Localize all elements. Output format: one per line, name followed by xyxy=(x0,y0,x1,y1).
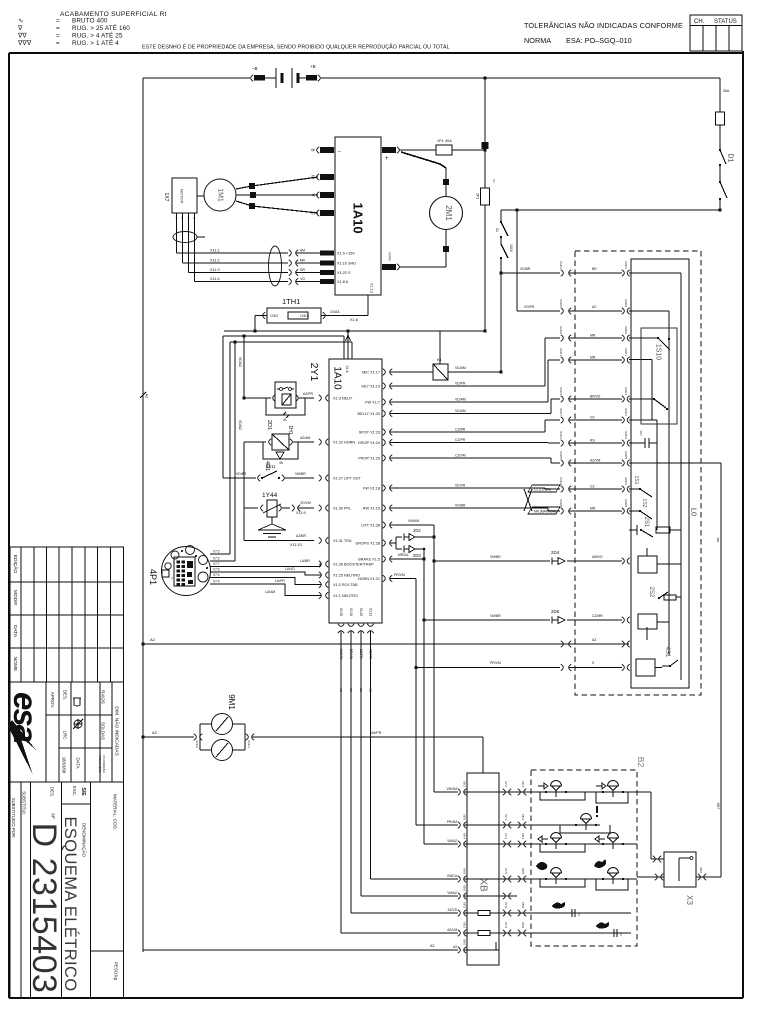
svg-text:2M1: 2M1 xyxy=(444,205,453,221)
svg-text:X20:1: X20:1 xyxy=(624,348,628,356)
svg-text:BRAKE X1:5: BRAKE X1:5 xyxy=(358,557,380,561)
svg-text:MR/AZ: MR/AZ xyxy=(398,553,409,557)
svg-text:CINZA: CINZA xyxy=(330,310,340,314)
svg-text:XB:8: XB:8 xyxy=(521,902,525,909)
svg-text:LA/PR: LA/PR xyxy=(275,579,285,583)
svg-text:CZ/PR: CZ/PR xyxy=(455,438,466,442)
svg-text:RAIOS: RAIOS xyxy=(100,690,105,704)
svg-text:MR: MR xyxy=(300,259,306,263)
svg-text:esa: esa xyxy=(7,692,44,743)
svg-text:VD/PR: VD/PR xyxy=(524,305,535,309)
svg-text:RS: RS xyxy=(590,439,595,443)
svg-text:VD/BR: VD/BR xyxy=(455,504,466,508)
svg-text:SOLDAS: SOLDAS xyxy=(100,722,105,740)
svg-text:X7:2: X7:2 xyxy=(213,557,220,561)
svg-text:X7:4: X7:4 xyxy=(504,833,508,839)
svg-text:1X7: 1X7 xyxy=(163,193,169,202)
svg-text:X1:26 BOOSTER/TRAP: X1:26 BOOSTER/TRAP xyxy=(333,562,374,566)
svg-text:X7:6: X7:6 xyxy=(213,568,220,572)
svg-text:∇∇∇: ∇∇∇ xyxy=(17,39,32,47)
svg-text:BR: BR xyxy=(592,267,597,271)
svg-text:MR: MR xyxy=(590,356,596,360)
svg-text:1S1X: 1S1X xyxy=(509,244,513,253)
svg-text:ESQUEMA ELÉTRICO: ESQUEMA ELÉTRICO xyxy=(61,816,80,991)
svg-text:X10:1: X10:1 xyxy=(559,261,563,269)
svg-text:VM/PR: VM/PR xyxy=(370,731,382,735)
svg-text:SUBSTITUI:: SUBSTITUI: xyxy=(21,791,26,815)
svg-text:XB:5: XB:5 xyxy=(521,868,525,875)
svg-text:X7:2: X7:2 xyxy=(504,781,508,787)
svg-text:LA/VD: LA/VD xyxy=(285,567,295,571)
svg-text:X?: X? xyxy=(492,179,496,183)
svg-text:VD/VM: VD/VM xyxy=(300,501,311,505)
svg-text:XB:2: XB:2 xyxy=(462,781,466,788)
svg-text:X11:2: X11:2 xyxy=(210,259,220,263)
svg-text:A2: A2 xyxy=(453,945,457,949)
svg-text:AM/VD: AM/VD xyxy=(592,555,603,559)
svg-text:MODIF.: MODIF. xyxy=(12,590,18,606)
svg-text:X1:30 PPL: X1:30 PPL xyxy=(333,506,351,510)
svg-text:1TH1: 1TH1 xyxy=(282,297,300,306)
svg-text:VD: VD xyxy=(300,277,305,281)
svg-text:D1: D1 xyxy=(726,154,733,163)
svg-text:B: B xyxy=(310,148,315,151)
svg-text:X10:6: X10:6 xyxy=(559,326,563,334)
svg-text:VD/BR: VD/BR xyxy=(520,267,531,271)
svg-text:ESTE DESNHO É DE PROPRIEDADE D: ESTE DESNHO É DE PROPRIEDADE DA EMPRESA,… xyxy=(142,44,450,51)
svg-text:VM/CA: VM/CA xyxy=(447,874,458,878)
svg-text:PR/VM: PR/VM xyxy=(394,573,405,577)
svg-text:ESA: PO–SGQ–010: ESA: PO–SGQ–010 xyxy=(566,36,632,45)
svg-text:1S2: 1S2 xyxy=(641,499,647,508)
svg-text:X1:2 ROJ.TAB: X1:2 ROJ.TAB xyxy=(333,583,358,587)
svg-text:XB:3: XB:3 xyxy=(521,814,525,821)
svg-text:LIFT X1:38: LIFT X1:38 xyxy=(361,523,380,527)
svg-text:1S?: 1S? xyxy=(639,430,643,436)
svg-text:1Y44: 1Y44 xyxy=(262,492,278,499)
svg-text:XB:6: XB:6 xyxy=(462,885,466,892)
svg-text:1S10: 1S10 xyxy=(654,344,661,360)
svg-text:A2: A2 xyxy=(150,637,156,642)
svg-text:2F1: 2F1 xyxy=(476,193,480,199)
svg-text:VD/PR: VD/PR xyxy=(455,382,466,386)
svg-text:MATERIAL: COD.: MATERIAL: COD. xyxy=(112,794,117,830)
svg-text:X1:25 NEUTRO: X1:25 NEUTRO xyxy=(333,573,360,577)
svg-text:VD/VR: VD/VR xyxy=(455,484,466,488)
svg-text:TOLERÂNCIAS NÃO INDICADAS C: TOLERÂNCIAS NÃO INDICADAS CONFORME xyxy=(524,21,683,30)
svg-text:VD/AZ: VD/AZ xyxy=(238,357,242,367)
svg-text:X7:3: X7:3 xyxy=(504,814,508,820)
svg-text:X10:6: X10:6 xyxy=(559,299,563,307)
svg-text:1S1: 1S1 xyxy=(633,476,639,485)
svg-text:D 2315403: D 2315403 xyxy=(25,823,63,994)
svg-text:=: = xyxy=(56,33,60,40)
svg-text:XB:9: XB:9 xyxy=(462,868,466,875)
svg-text:1M1: 1M1 xyxy=(216,188,223,202)
svg-text:PESO:kg: PESO:kg xyxy=(113,962,118,981)
svg-text:B2: B2 xyxy=(636,757,646,768)
svg-text:X7:8: X7:8 xyxy=(504,902,508,908)
svg-text:X10:7: X10:7 xyxy=(559,408,563,416)
svg-text:X1:10 SHD: X1:10 SHD xyxy=(337,262,356,266)
svg-text:XB:3: XB:3 xyxy=(462,902,466,909)
svg-text:CH.: CH. xyxy=(694,19,705,25)
svg-text:A2: A2 xyxy=(430,944,434,948)
svg-text:Nº: Nº xyxy=(49,813,55,818)
svg-text:X12:2: X12:2 xyxy=(195,740,199,748)
svg-text:X1:22 HORN: X1:22 HORN xyxy=(333,440,355,444)
svg-text:XB:2: XB:2 xyxy=(521,781,525,788)
svg-text:CZ/MR: CZ/MR xyxy=(592,614,603,618)
svg-text:VM/AM: VM/AM xyxy=(408,519,419,523)
svg-text://: // xyxy=(620,933,622,937)
svg-text:AZ: AZ xyxy=(592,305,596,309)
svg-text:1F4: 1F4 xyxy=(437,139,444,143)
svg-text:S/E: S/E xyxy=(80,787,86,796)
svg-text:2D2: 2D2 xyxy=(413,528,421,533)
svg-text:RW X1:15: RW X1:15 xyxy=(363,506,380,510)
svg-text:VS: VS xyxy=(590,416,595,420)
svg-text:BR: BR xyxy=(300,268,305,272)
svg-text:MR: MR xyxy=(716,538,720,543)
svg-text:X1:11: X1:11 xyxy=(368,608,372,616)
svg-text:2D4: 2D4 xyxy=(551,550,560,555)
svg-text:X1:20: X1:20 xyxy=(359,608,363,617)
svg-text:∇: ∇ xyxy=(17,24,23,32)
svg-text:DATA: DATA xyxy=(75,757,80,768)
svg-text:X20:6: X20:6 xyxy=(624,326,628,334)
svg-text:X20:1: X20:1 xyxy=(624,261,628,269)
svg-text:VM/AZ: VM/AZ xyxy=(447,891,457,895)
svg-text:1H1: 1H1 xyxy=(287,425,293,434)
svg-text:X11:9: X11:9 xyxy=(296,511,306,515)
svg-text:2Y1: 2Y1 xyxy=(308,363,320,382)
svg-text:XB:7: XB:7 xyxy=(716,803,720,810)
svg-text:DROPS X1:28: DROPS X1:28 xyxy=(356,541,380,545)
svg-text:VD/AM: VD/AM xyxy=(455,366,466,370)
svg-text:LA/AM: LA/AM xyxy=(265,590,275,594)
svg-text:45: 45 xyxy=(279,461,283,465)
svg-text:2D3: 2D3 xyxy=(413,553,421,558)
svg-text:4S1: 4S1 xyxy=(664,647,670,658)
svg-text:2S1: 2S1 xyxy=(643,517,649,528)
svg-text:+B: +B xyxy=(310,64,316,69)
svg-text:CZ/BR: CZ/BR xyxy=(455,428,466,432)
svg-text:P/FUNDIÇÃO: P/FUNDIÇÃO xyxy=(102,755,107,773)
svg-text:X10:3: X10:3 xyxy=(559,431,563,439)
svg-text:=: = xyxy=(56,25,60,32)
svg-text://: // xyxy=(578,913,580,917)
svg-text:MOTOR: MOTOR xyxy=(180,189,185,204)
svg-text:EDIÇÃO: EDIÇÃO xyxy=(12,555,19,574)
svg-text:CZ: CZ xyxy=(590,485,595,489)
svg-text:X1:1 NEUTRO: X1:1 NEUTRO xyxy=(333,594,358,598)
svg-text:VD/AZ: VD/AZ xyxy=(238,420,242,430)
svg-text:VMN: VMN xyxy=(388,252,393,261)
svg-text:CZ (CINZA): CZ (CINZA) xyxy=(534,488,551,492)
svg-text:XB:4: XB:4 xyxy=(462,833,466,840)
svg-text:X12:1: X12:1 xyxy=(247,740,251,748)
svg-text:AZ: AZ xyxy=(592,638,596,642)
svg-text:STATUS: STATUS xyxy=(714,19,737,25)
svg-text:+: + xyxy=(385,156,389,162)
svg-text:X1:6: X1:6 xyxy=(350,318,358,322)
svg-text:DES.: DES. xyxy=(62,690,67,700)
svg-text:MIC X1:17: MIC X1:17 xyxy=(362,370,380,374)
svg-text:HORN X1:21: HORN X1:21 xyxy=(358,577,380,581)
svg-text:4P1: 4P1 xyxy=(148,569,158,585)
svg-text:RUG. > 1 ATÉ 4: RUG. > 1 ATÉ 4 xyxy=(72,38,119,47)
svg-text:VM/BR: VM/BR xyxy=(490,555,501,559)
svg-text:X11:1: X11:1 xyxy=(210,249,220,253)
svg-text:LA/BR: LA/BR xyxy=(300,559,310,563)
svg-text:41: 41 xyxy=(283,418,287,422)
svg-text:MR: MR xyxy=(590,507,596,511)
svg-text:X1:34: X1:34 xyxy=(349,608,353,617)
svg-text:X1:31 TRA: X1:31 TRA xyxy=(333,539,352,543)
svg-text:∿: ∿ xyxy=(18,18,24,25)
svg-text:1X8:2: 1X8:2 xyxy=(270,314,279,318)
svg-text:BR/VD: BR/VD xyxy=(590,395,601,399)
svg-text:X1:22 S: X1:22 S xyxy=(337,271,351,275)
svg-text:BELLY X1:33: BELLY X1:33 xyxy=(358,412,380,416)
svg-text:1A10: 1A10 xyxy=(331,366,342,390)
svg-text:X20:4: X20:4 xyxy=(624,387,628,395)
svg-text:–: – xyxy=(338,149,341,155)
svg-text:X20:3: X20:3 xyxy=(624,431,628,439)
svg-text:RUG. > 25 ATÉ 160: RUG. > 25 ATÉ 160 xyxy=(72,23,130,32)
svg-text:XB:4: XB:4 xyxy=(521,833,525,840)
svg-text:A2: A2 xyxy=(145,394,149,398)
svg-text:APROV.: APROV. xyxy=(50,692,55,708)
svg-text:K1: K1 xyxy=(437,358,442,362)
svg-text:=: = xyxy=(56,18,60,25)
svg-text:A2: A2 xyxy=(152,730,158,735)
svg-text:DES.: DES. xyxy=(49,787,54,797)
svg-text:VM/BR: VM/BR xyxy=(490,614,501,618)
svg-text:X10:1: X10:1 xyxy=(559,348,563,356)
svg-text:DROP X1:24: DROP X1:24 xyxy=(358,441,380,445)
svg-text:X11:4: X11:4 xyxy=(210,277,220,281)
svg-text:X1:27 LIFT OUT: X1:27 LIFT OUT xyxy=(333,476,361,480)
svg-text:X3: X3 xyxy=(685,895,694,905)
svg-text:PR/VM: PR/VM xyxy=(490,661,501,665)
svg-text:VD/AM: VD/AM xyxy=(455,398,466,402)
svg-text:DIM. NÃO INDICADAS: DIM. NÃO INDICADAS xyxy=(113,706,120,755)
svg-text:SPOT X1:23: SPOT X1:23 xyxy=(359,430,380,434)
svg-text:XB:6: XB:6 xyxy=(699,867,703,874)
svg-text:AZ/VD: AZ/VD xyxy=(448,908,458,912)
svg-text:AZ/VM: AZ/VM xyxy=(590,459,601,463)
svg-text:VM/AM: VM/AM xyxy=(447,787,458,791)
svg-text:2S2: 2S2 xyxy=(648,587,654,598)
svg-text:1X8:1: 1X8:1 xyxy=(300,314,309,318)
svg-text:X7:2: X7:2 xyxy=(213,550,220,554)
svg-text:X7:4: X7:4 xyxy=(213,580,220,584)
svg-text:X20:6: X20:6 xyxy=(624,299,628,307)
svg-text:ESC.: ESC. xyxy=(72,786,77,796)
svg-text:XB:9: XB:9 xyxy=(521,922,525,929)
svg-text:DENOMINAÇÃO: DENOMINAÇÃO xyxy=(81,823,87,858)
svg-text:VM/AZ: VM/AZ xyxy=(447,839,457,843)
svg-text:X1:3 NEUT: X1:3 NEUT xyxy=(333,396,353,400)
svg-text:X10:5: X10:5 xyxy=(559,451,563,459)
svg-text:–B: –B xyxy=(252,66,258,71)
svg-text:DATA: DATA xyxy=(12,625,18,638)
svg-text:18/03/08: 18/03/08 xyxy=(61,757,66,774)
svg-text:PR/AM: PR/AM xyxy=(447,820,457,824)
svg-text:MR: MR xyxy=(590,334,596,338)
svg-text:2D6: 2D6 xyxy=(551,609,560,614)
svg-text:9M1: 9M1 xyxy=(227,694,236,710)
svg-text:AZ/AM: AZ/AM xyxy=(300,436,311,440)
svg-text:30A: 30A xyxy=(723,89,730,93)
svg-text:40A: 40A xyxy=(445,139,452,143)
svg-text:X10:8: X10:8 xyxy=(559,499,563,507)
svg-text:X20:7: X20:7 xyxy=(624,408,628,416)
svg-text:FW X1:18: FW X1:18 xyxy=(363,486,380,490)
svg-text:X20:5: X20:5 xyxy=(624,451,628,459)
svg-text:L0: L0 xyxy=(689,508,698,516)
svg-text:VM/BR: VM/BR xyxy=(295,472,306,476)
svg-text:X20:4: X20:4 xyxy=(624,477,628,485)
svg-text:VD/AM: VD/AM xyxy=(455,409,466,413)
svg-text:MR (MARROM): MR (MARROM) xyxy=(534,510,557,514)
svg-text:X7:9: X7:9 xyxy=(504,922,508,928)
svg-text:NOME: NOME xyxy=(12,657,18,671)
svg-text:X7:4: X7:4 xyxy=(213,573,220,577)
svg-text:∇∇: ∇∇ xyxy=(17,32,27,40)
svg-text:X1:35: X1:35 xyxy=(339,608,343,617)
svg-text:X7:7: X7:7 xyxy=(213,562,220,566)
svg-text:SUBSTITUIDO POR:: SUBSTITUIDO POR: xyxy=(11,798,16,839)
svg-text:AZ/PR: AZ/PR xyxy=(303,392,314,396)
svg-text:BRUTO 400: BRUTO 400 xyxy=(72,18,108,25)
svg-text:X10:4: X10:4 xyxy=(559,387,563,395)
svg-text:X7:5: X7:5 xyxy=(504,868,508,874)
svg-text:X1:8 A: X1:8 A xyxy=(337,280,349,284)
svg-text:1A10: 1A10 xyxy=(350,202,365,233)
svg-text:X20:8: X20:8 xyxy=(624,499,628,507)
svg-text:S1: S1 xyxy=(495,228,499,232)
svg-text:X11:10: X11:10 xyxy=(290,543,302,547)
svg-text:XB: XB xyxy=(477,878,488,892)
svg-text:AZ/BR: AZ/BR xyxy=(296,534,307,538)
svg-text:RUG. > 4 ATÉ 25: RUG. > 4 ATÉ 25 xyxy=(72,31,123,40)
svg-text:XB:0: XB:0 xyxy=(462,939,466,946)
svg-text:X10:4: X10:4 xyxy=(559,477,563,485)
svg-text:2D1: 2D1 xyxy=(266,420,272,430)
svg-text:X1:9 +15V: X1:9 +15V xyxy=(337,252,355,256)
svg-text:LRC: LRC xyxy=(62,731,67,740)
svg-text:2S11: 2S11 xyxy=(266,464,276,469)
svg-text:AZ/VM: AZ/VM xyxy=(447,928,457,932)
svg-text:PROP X1:29: PROP X1:29 xyxy=(358,456,380,460)
svg-text:XB:3: XB:3 xyxy=(462,922,466,929)
svg-text:CZ/VM: CZ/VM xyxy=(455,454,466,458)
svg-text:XB:5: XB:5 xyxy=(462,814,466,821)
svg-text:AM: AM xyxy=(300,249,305,253)
svg-text:X11:3: X11:3 xyxy=(210,268,220,272)
svg-text:X1:12: X1:12 xyxy=(370,283,374,293)
svg-text:X1:4: X1:4 xyxy=(345,366,349,373)
svg-text:KEY X1:13: KEY X1:13 xyxy=(361,384,380,388)
svg-text:=: = xyxy=(56,40,60,47)
svg-text:VD/BR: VD/BR xyxy=(236,472,247,476)
svg-text:NORMA: NORMA xyxy=(524,36,551,45)
svg-text:FW X1:7: FW X1:7 xyxy=(365,400,380,404)
